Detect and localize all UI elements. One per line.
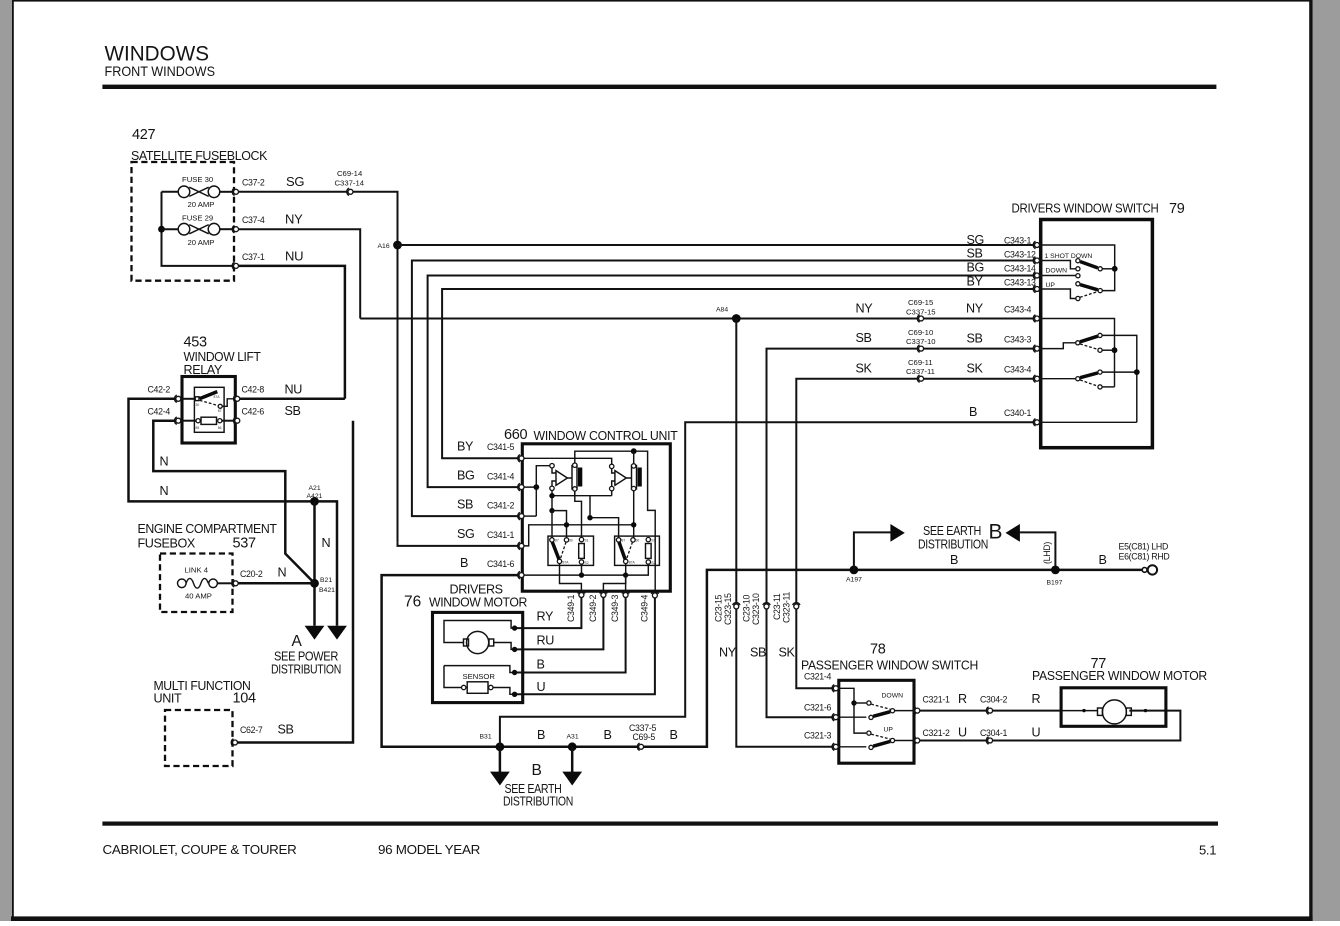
660 interior: BG wire to left driver input <box>524 466 550 516</box>
svg-text:87: 87 <box>555 538 559 542</box>
svg-text:C323-10: C323-10 <box>751 593 761 625</box>
svg-text:B31: B31 <box>480 734 492 741</box>
wire B C349-3 to motor <box>515 598 626 673</box>
660 interior: SG bus <box>524 525 634 546</box>
svg-text:B: B <box>969 405 977 419</box>
svg-text:A197: A197 <box>846 577 862 584</box>
svg-text:SB: SB <box>967 332 983 346</box>
svg-text:DISTRIBUTION: DISTRIBUTION <box>271 663 341 677</box>
wire NU from fuseblock <box>239 266 345 399</box>
connector C341-5 <box>518 455 524 462</box>
svg-text:LINK 4: LINK 4 <box>185 566 209 575</box>
svg-text:SEE EARTH: SEE EARTH <box>923 524 981 538</box>
switch1 BG wire <box>1040 275 1076 277</box>
connector C341-6 <box>518 571 524 578</box>
svg-text:C343-13: C343-13 <box>1004 278 1036 288</box>
wire SB switch to passenger drop <box>767 349 1036 718</box>
svg-text:C341-2: C341-2 <box>487 501 514 511</box>
svg-text:C37-1: C37-1 <box>242 252 265 262</box>
svg-text:C343-3: C343-3 <box>1004 335 1031 345</box>
svg-text:C343-4: C343-4 <box>1004 365 1031 375</box>
svg-text:C69-5: C69-5 <box>633 732 656 742</box>
wire SG vertical into 660 <box>398 543 520 546</box>
svg-text:E6(C81) RHD: E6(C81) RHD <box>1119 552 1170 562</box>
connector C304-1 <box>986 737 992 744</box>
connector C343-3 <box>1033 345 1039 352</box>
svg-text:85: 85 <box>196 426 200 430</box>
fusible link LINK 4 <box>178 566 234 601</box>
svg-text:A21: A21 <box>309 485 321 492</box>
svg-text:C321-2: C321-2 <box>923 728 950 738</box>
switch1 SB wire to 1SHOT step <box>1040 261 1076 269</box>
relay switch lever <box>200 392 218 399</box>
svg-text:FUSE 29: FUSE 29 <box>182 214 213 223</box>
svg-text:C304-1: C304-1 <box>980 728 1007 738</box>
node B31 <box>496 742 505 751</box>
fuse FUSE 29 <box>162 214 234 248</box>
svg-text:C349-1: C349-1 <box>566 595 576 622</box>
svg-text:C323-11: C323-11 <box>782 592 792 623</box>
svg-text:C321-4: C321-4 <box>804 672 831 682</box>
svg-text:UP: UP <box>884 727 894 734</box>
svg-text:B: B <box>537 728 545 742</box>
wire BY 660 to switch <box>442 289 1035 458</box>
svg-text:30: 30 <box>196 403 200 407</box>
node B197 <box>1051 566 1060 575</box>
wire N from A21 down through B21 to arrow <box>313 501 316 625</box>
left grey margin <box>0 0 12 921</box>
wire NU relay to fuseblock <box>240 398 345 401</box>
switch1 dashed lever <box>1080 291 1098 297</box>
svg-text:S1: S1 <box>585 538 589 542</box>
wire N from C42-2 to A21 <box>129 399 338 626</box>
connector C340-1 <box>1033 419 1039 426</box>
node B21 <box>310 579 319 588</box>
svg-text:FUSEBOX: FUSEBOX <box>138 537 196 551</box>
svg-text:SG: SG <box>457 527 474 541</box>
power distribution arrow 1 <box>305 626 325 640</box>
svg-text:C20-2: C20-2 <box>240 569 263 579</box>
node A31 <box>568 742 577 751</box>
wire N from C42-4 to B21 <box>153 421 314 584</box>
node A84 <box>732 314 741 323</box>
node A21 <box>310 497 319 506</box>
svg-text:87A: 87A <box>214 395 221 399</box>
svg-text:20 AMP: 20 AMP <box>188 200 215 209</box>
switch2 SB lever <box>1080 336 1098 342</box>
drivers window switch 79 box <box>1041 220 1153 448</box>
engine compartment fusebox dashed box <box>160 554 233 613</box>
earth arrow below A31 <box>571 747 574 772</box>
svg-text:C323-15: C323-15 <box>723 593 733 625</box>
svg-text:C69-11: C69-11 <box>908 358 933 367</box>
svg-text:30: 30 <box>636 538 640 542</box>
connector C341-2 <box>518 512 524 519</box>
svg-text:A16: A16 <box>378 243 390 250</box>
page border bottom <box>11 916 1313 921</box>
switch1 contact circles <box>1076 259 1080 263</box>
svg-text:C341-5: C341-5 <box>487 442 514 452</box>
svg-text:B: B <box>670 728 678 742</box>
connector C343-4 (SK) <box>1033 375 1039 382</box>
svg-text:FUSE 30: FUSE 30 <box>182 175 213 184</box>
svg-text:B21: B21 <box>320 577 332 584</box>
connector C42-8 <box>234 395 240 402</box>
connector C37-1 <box>232 262 238 269</box>
660 interior: RL2 left contact feed <box>590 496 619 538</box>
wire SG from fuseblock <box>239 192 398 543</box>
svg-text:C321-3: C321-3 <box>804 731 831 741</box>
svg-text:N: N <box>160 484 169 498</box>
svg-text:B197: B197 <box>1047 580 1063 587</box>
svg-text:87: 87 <box>218 409 222 413</box>
switch2 SB step to pivot <box>1040 343 1076 349</box>
svg-text:C341-1: C341-1 <box>487 530 514 540</box>
connector C343-4 (NY) <box>1033 315 1039 322</box>
svg-text:C341-6: C341-6 <box>487 559 514 569</box>
earth ring terminal E5/E6 <box>1142 568 1147 573</box>
svg-text:SB: SB <box>750 646 766 660</box>
svg-text:U: U <box>1032 726 1041 740</box>
svg-text:C341-4: C341-4 <box>487 472 514 482</box>
svg-text:PASSENGER WINDOW SWITCH: PASSENGER WINDOW SWITCH <box>801 658 978 673</box>
svg-text:SB: SB <box>457 498 473 512</box>
svg-text:FRONT WINDOWS: FRONT WINDOWS <box>105 63 216 79</box>
connector C37-4 <box>232 226 238 233</box>
page border top <box>12 0 1310 2</box>
relay RL1 contact box <box>548 536 594 565</box>
connector C341-4 <box>518 483 524 490</box>
connector C321-3 <box>832 743 838 750</box>
wire NY main run <box>360 318 1035 320</box>
wire B drivers switch C340-1 to earth <box>500 422 1035 747</box>
svg-text:C23-10: C23-10 <box>742 595 752 622</box>
svg-text:(LHD): (LHD) <box>1042 542 1052 564</box>
svg-text:R: R <box>1032 692 1041 706</box>
svg-text:C337-15: C337-15 <box>906 307 936 316</box>
passenger window motor box <box>1061 688 1166 727</box>
wire N fusebox to B21 <box>238 582 315 585</box>
wire NY A84 drop to passenger switch <box>736 319 833 747</box>
svg-text:S1: S1 <box>651 538 655 542</box>
svg-text:CABRIOLET, COUPE & TOURER: CABRIOLET, COUPE & TOURER <box>103 842 297 857</box>
svg-text:DOWN: DOWN <box>1046 268 1068 275</box>
svg-text:87: 87 <box>622 538 626 542</box>
connector C304-2 <box>986 707 992 714</box>
svg-text:C42-4: C42-4 <box>148 407 171 417</box>
660 interior: to relay RL1 contacts <box>552 511 567 538</box>
svg-text:B: B <box>604 728 612 742</box>
svg-text:WINDOW CONTROL UNIT: WINDOW CONTROL UNIT <box>534 428 678 443</box>
op-amp U2 triangle <box>615 471 626 486</box>
connector C341-1 <box>518 542 524 549</box>
svg-text:BY: BY <box>457 440 474 454</box>
svg-text:ENGINE COMPARTMENT: ENGINE COMPARTMENT <box>138 522 278 536</box>
connector C349-2 <box>600 591 607 597</box>
coil K2 <box>632 466 637 490</box>
page border left <box>12 0 14 921</box>
switch2 B return rail <box>1040 421 1137 423</box>
power distribution arrow 2 <box>327 626 347 640</box>
relay RL2 contact box <box>615 536 660 565</box>
connector C42-2 <box>175 395 181 402</box>
connector C349-3 <box>622 591 629 597</box>
svg-text:DOWN: DOWN <box>882 693 904 700</box>
svg-text:B421: B421 <box>319 587 335 594</box>
svg-text:C343-14: C343-14 <box>1004 264 1036 274</box>
svg-text:A421: A421 <box>307 493 323 500</box>
connector C321-1 <box>914 707 920 714</box>
svg-text:C69-10: C69-10 <box>908 328 933 337</box>
switch1 lever (up) <box>1080 285 1097 290</box>
svg-text:NU: NU <box>285 249 303 264</box>
svg-text:C321-1: C321-1 <box>923 695 950 705</box>
motor M1 armature <box>467 631 489 653</box>
svg-text:U: U <box>958 726 967 740</box>
switch1 BY wire step <box>1040 289 1076 299</box>
connector C343-1 <box>1033 241 1039 248</box>
svg-text:WINDOW MOTOR: WINDOW MOTOR <box>429 596 527 610</box>
660 interior: lower input bus <box>552 491 612 511</box>
svg-text:C349-3: C349-3 <box>610 595 620 622</box>
svg-text:SB: SB <box>278 723 294 737</box>
svg-text:NY: NY <box>966 302 984 316</box>
window control unit 660 box <box>522 444 670 591</box>
svg-text:SEE POWER: SEE POWER <box>274 650 338 664</box>
svg-text:PASSENGER WINDOW MOTOR: PASSENGER WINDOW MOTOR <box>1032 668 1207 683</box>
relay 453 inner box <box>194 387 224 432</box>
svg-text:427: 427 <box>132 127 156 143</box>
drivers window motor box <box>433 612 523 702</box>
connector C321-6 <box>832 714 838 721</box>
connector C23-15/C323-15 on NY drop <box>733 603 740 609</box>
wire SG to drivers window switch <box>398 244 1036 246</box>
svg-text:U: U <box>537 680 546 694</box>
svg-text:C42-6: C42-6 <box>242 407 265 417</box>
wire B 660 to earth line <box>382 570 1143 747</box>
connector C349-1 <box>578 591 585 597</box>
svg-text:DRIVERS: DRIVERS <box>450 583 503 597</box>
svg-text:C37-4: C37-4 <box>242 215 265 225</box>
switch1 SG common rail <box>1040 245 1115 269</box>
svg-text:453: 453 <box>184 335 208 351</box>
svg-text:C23-15: C23-15 <box>714 595 724 622</box>
op-amp U2 input circles <box>610 464 614 468</box>
svg-text:B: B <box>460 556 468 570</box>
connector C62-7 <box>231 739 237 746</box>
svg-text:SB: SB <box>285 404 301 418</box>
svg-text:SG: SG <box>286 174 304 189</box>
svg-text:B: B <box>1099 553 1107 567</box>
svg-text:537: 537 <box>233 536 257 552</box>
svg-text:C42-2: C42-2 <box>148 385 171 395</box>
svg-text:C69-15: C69-15 <box>908 298 933 307</box>
connector C349-4 <box>651 592 658 598</box>
connector C343-14 <box>1033 272 1039 279</box>
svg-text:C343-4: C343-4 <box>1004 305 1031 315</box>
svg-text:1 SHOT DOWN: 1 SHOT DOWN <box>1045 253 1093 260</box>
660 interior: RL2 output to C349-2 <box>603 564 625 592</box>
svg-text:NY: NY <box>856 302 874 316</box>
svg-text:BY: BY <box>967 275 984 289</box>
connector C42-6 <box>234 417 240 424</box>
svg-text:S2: S2 <box>585 561 589 565</box>
svg-text:SG: SG <box>967 233 984 247</box>
wire NY from fuseblock <box>239 229 361 318</box>
wire NY label + connectors on mid run <box>917 315 923 322</box>
svg-text:UP: UP <box>1046 282 1056 289</box>
wire U to passenger motor return <box>920 711 1181 741</box>
satellite fuseblock dashed box <box>132 162 235 281</box>
svg-text:NY: NY <box>285 212 303 227</box>
svg-text:C340-1: C340-1 <box>1004 408 1031 418</box>
svg-text:30: 30 <box>569 538 573 542</box>
connector C20-2 <box>232 580 238 587</box>
switch1 lever (1 shot down) <box>1080 262 1097 268</box>
svg-text:DISTRIBUTION: DISTRIBUTION <box>503 795 573 809</box>
connector C69-14 C337-14 <box>347 188 353 195</box>
svg-text:C349-2: C349-2 <box>588 595 598 622</box>
svg-text:SB: SB <box>967 247 983 261</box>
svg-text:N: N <box>322 536 331 550</box>
svg-text:WINDOW LIFT: WINDOW LIFT <box>184 350 262 364</box>
svg-text:C337-10: C337-10 <box>906 337 936 346</box>
relay switch dashed lever <box>200 400 219 405</box>
footer rule <box>102 822 1218 826</box>
wire SK switch to passenger drop <box>796 379 1035 689</box>
660 interior: B bus <box>524 564 648 575</box>
connector C321-4 <box>832 685 838 692</box>
connector C321-2 <box>914 737 920 744</box>
svg-text:A84: A84 <box>716 307 728 314</box>
switch2 SK wire to pivot <box>1040 378 1076 380</box>
660 interior: SB wire join <box>524 515 536 517</box>
connector C343-13 <box>1033 285 1039 292</box>
svg-text:20 AMP: 20 AMP <box>188 238 215 247</box>
connector C23-10/C323-10 on SB drop <box>763 603 770 609</box>
switch2 NY rail <box>1040 319 1115 387</box>
svg-text:C343-1: C343-1 <box>1004 236 1031 246</box>
multi function unit dashed box <box>165 710 233 766</box>
svg-text:5.1: 5.1 <box>1199 843 1216 858</box>
660 interior: top supply rail <box>575 451 655 592</box>
wire R to passenger motor <box>920 710 1061 712</box>
svg-text:SENSOR: SENSOR <box>463 672 496 681</box>
svg-text:C62-7: C62-7 <box>240 725 263 735</box>
relay contact 87 <box>218 404 222 408</box>
svg-text:C37-2: C37-2 <box>242 178 265 188</box>
svg-text:SK: SK <box>967 362 984 376</box>
connector C37-2 <box>232 188 238 195</box>
fuse FUSE 30 <box>162 175 234 209</box>
svg-text:C304-2: C304-2 <box>980 695 1007 705</box>
svg-text:RY: RY <box>537 610 554 624</box>
svg-text:BG: BG <box>967 261 984 275</box>
svg-text:104: 104 <box>233 691 257 707</box>
svg-text:BG: BG <box>457 469 474 483</box>
connector C343-12 <box>1033 257 1039 264</box>
motor sensor loop <box>444 666 515 673</box>
svg-text:B: B <box>532 762 542 779</box>
svg-text:SK: SK <box>856 362 873 376</box>
svg-text:96 MODEL YEAR: 96 MODEL YEAR <box>378 842 480 857</box>
connector C23-11/C323-11 on SK drop <box>793 603 800 609</box>
660 interior: coil K2 to relay RL2 <box>633 491 635 538</box>
switch2 SK lever <box>1080 373 1098 378</box>
svg-text:C343-12: C343-12 <box>1004 250 1036 260</box>
svg-text:NY: NY <box>719 646 737 660</box>
right grey margin <box>1313 0 1340 921</box>
svg-text:78: 78 <box>870 642 886 658</box>
wire SB multifunction unit to relay C42-6 <box>237 421 353 743</box>
svg-text:NU: NU <box>285 383 303 397</box>
relay 453 outer box <box>182 377 235 444</box>
svg-text:N: N <box>278 566 287 580</box>
junction on fuse bus <box>158 226 165 233</box>
svg-text:C321-6: C321-6 <box>804 703 831 713</box>
earth arrow below B31 <box>499 747 502 772</box>
svg-text:C337-11: C337-11 <box>906 367 935 376</box>
header rule <box>102 85 1216 89</box>
svg-text:40 AMP: 40 AMP <box>185 592 212 601</box>
svg-text:C69-14: C69-14 <box>337 169 363 178</box>
svg-text:UNIT: UNIT <box>154 692 182 706</box>
svg-text:N: N <box>160 455 169 469</box>
svg-text:RELAY: RELAY <box>184 363 223 377</box>
svg-text:C23-11: C23-11 <box>772 593 782 620</box>
wire RY C349-1 to motor <box>515 598 582 629</box>
svg-text:RU: RU <box>537 634 555 648</box>
wire U C349-4 to motor <box>515 598 655 694</box>
svg-text:87A: 87A <box>629 561 636 565</box>
svg-text:WINDOWS: WINDOWS <box>105 42 210 66</box>
wire BG 660 to switch <box>428 276 1035 488</box>
node A16 <box>393 241 402 250</box>
660 interior: B to C349-3 <box>625 575 627 592</box>
svg-text:B: B <box>537 658 545 672</box>
svg-text:660: 660 <box>504 427 528 443</box>
relay output jog to C42-8 <box>222 399 235 407</box>
connector C337-5 C69-5 <box>637 743 643 750</box>
earth arrow left at B197 <box>1006 524 1020 542</box>
fuse bus wire <box>162 192 237 266</box>
svg-text:86: 86 <box>218 426 222 430</box>
svg-text:87A: 87A <box>563 561 570 565</box>
svg-text:79: 79 <box>1169 201 1185 217</box>
svg-text:DISTRIBUTION: DISTRIBUTION <box>918 538 988 552</box>
svg-text:A: A <box>292 633 303 650</box>
svg-text:B: B <box>950 553 958 567</box>
relay coil row C42-4 to C42-6 <box>181 420 196 422</box>
page border right <box>1309 0 1312 921</box>
wire SB 660 to switch <box>412 261 1035 517</box>
op-amp U1 triangle <box>556 471 567 486</box>
motor armature loop wires <box>444 621 515 643</box>
passenger switch common feed <box>838 688 866 733</box>
svg-text:C42-8: C42-8 <box>242 385 265 395</box>
svg-text:76: 76 <box>404 594 421 611</box>
passenger window switch box <box>839 680 914 763</box>
connector C42-4 <box>175 417 181 424</box>
svg-text:B: B <box>989 521 1003 544</box>
wire RU C349-2 to motor <box>515 598 604 650</box>
660 interior: RL1 output to C349-1 <box>560 564 582 592</box>
svg-text:A31: A31 <box>567 734 579 741</box>
svg-text:R: R <box>958 692 967 706</box>
svg-text:SB: SB <box>856 331 872 345</box>
svg-text:DRIVERS WINDOW SWITCH: DRIVERS WINDOW SWITCH <box>1012 201 1159 216</box>
coil K1 <box>572 466 577 490</box>
